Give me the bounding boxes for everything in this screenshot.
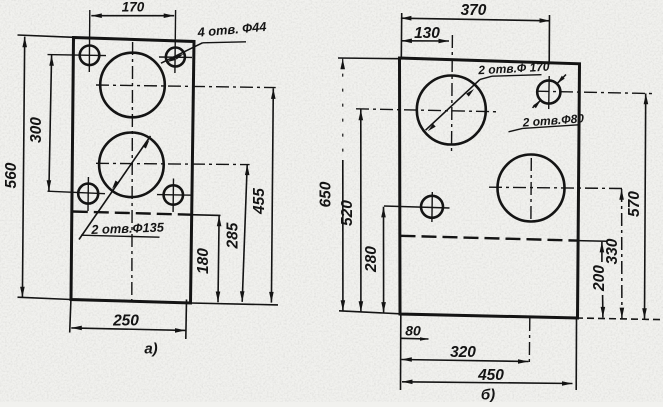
svg-text:200: 200	[591, 265, 608, 292]
svg-text:520: 520	[339, 200, 356, 226]
svg-text:170: 170	[122, 0, 145, 15]
svg-text:300: 300	[28, 117, 45, 143]
svg-text:560: 560	[3, 162, 20, 188]
svg-text:130: 130	[414, 25, 440, 42]
svg-text:650: 650	[318, 181, 335, 207]
svg-text:450: 450	[477, 367, 504, 384]
svg-text:330: 330	[604, 238, 621, 264]
svg-text:455: 455	[251, 188, 268, 215]
svg-text:370: 370	[461, 2, 487, 19]
svg-text:280: 280	[363, 246, 380, 273]
svg-text:2 отв.Ф135: 2 отв.Ф135	[90, 219, 165, 237]
svg-text:180: 180	[195, 248, 212, 274]
svg-text:80: 80	[405, 323, 421, 339]
svg-text:285: 285	[225, 222, 242, 249]
svg-text:250: 250	[112, 313, 139, 330]
svg-text:320: 320	[450, 344, 476, 361]
svg-text:б): б)	[481, 387, 495, 403]
svg-text:570: 570	[626, 191, 643, 217]
svg-text:а): а)	[144, 341, 157, 358]
